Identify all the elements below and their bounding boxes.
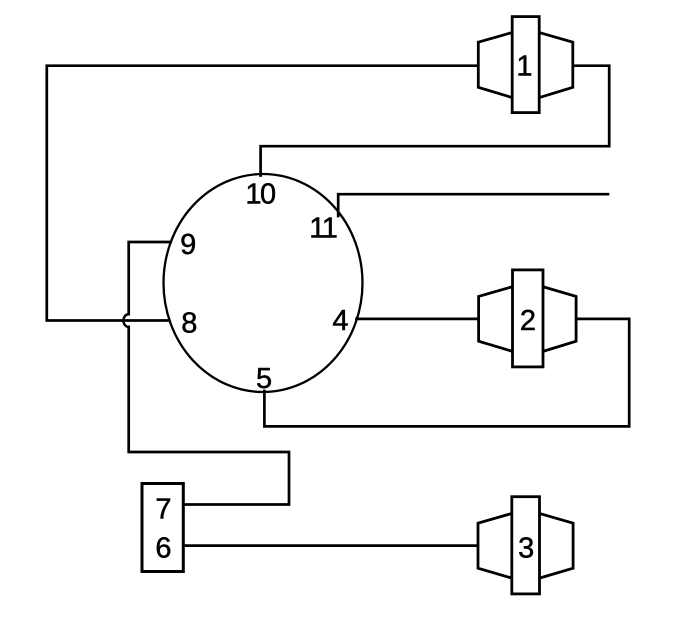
- svg-text:8: 8: [181, 307, 197, 339]
- svg-text:10: 10: [245, 179, 275, 211]
- svg-text:7: 7: [155, 494, 171, 526]
- svg-text:11: 11: [309, 213, 336, 245]
- svg-text:1: 1: [516, 51, 532, 83]
- svg-text:9: 9: [180, 229, 196, 261]
- svg-text:4: 4: [332, 305, 348, 337]
- svg-text:6: 6: [155, 532, 171, 564]
- svg-text:5: 5: [256, 363, 272, 395]
- svg-text:2: 2: [520, 305, 536, 337]
- svg-text:3: 3: [518, 532, 534, 564]
